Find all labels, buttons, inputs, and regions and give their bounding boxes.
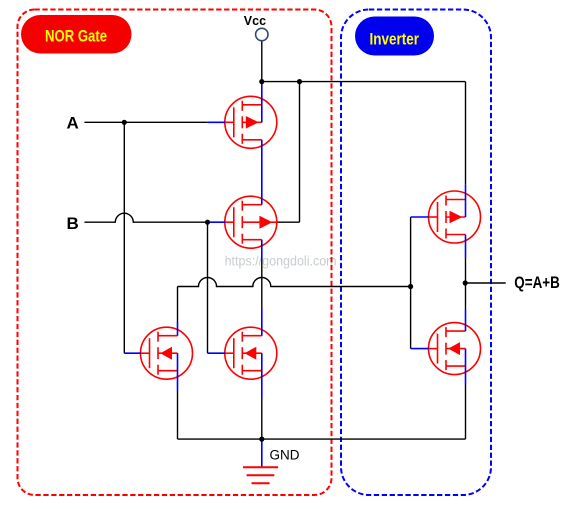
- svg-text:https://gongdoli.com: https://gongdoli.com: [225, 253, 337, 268]
- svg-text:NOR Gate: NOR Gate: [45, 28, 107, 46]
- svg-text:Inverter: Inverter: [370, 30, 420, 48]
- svg-text:Q=A+B: Q=A+B: [514, 274, 560, 292]
- svg-text:B: B: [67, 214, 79, 233]
- svg-text:Vcc: Vcc: [244, 14, 266, 28]
- svg-text:GND: GND: [270, 448, 300, 463]
- svg-text:A: A: [67, 114, 79, 133]
